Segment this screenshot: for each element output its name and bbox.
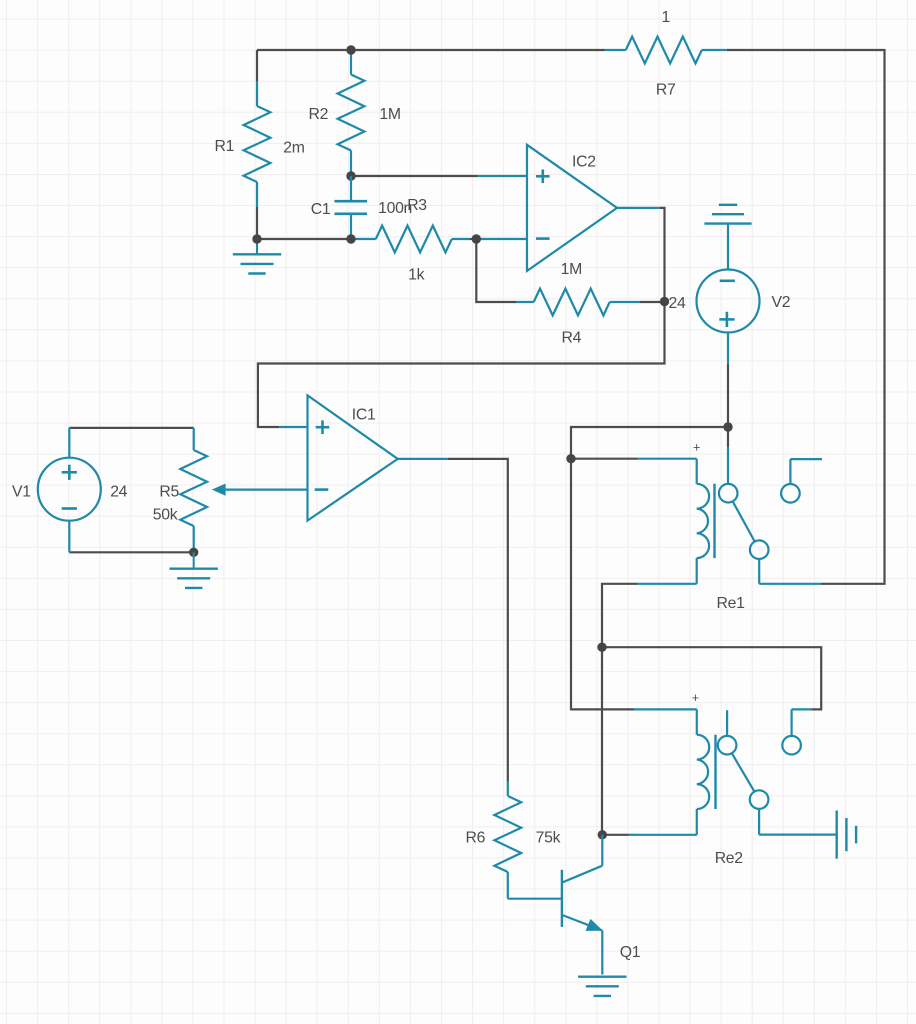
- wire R4 right to node 24: [640, 301, 665, 303]
- wire V1 top to R5 top: [69, 427, 193, 429]
- svg-text:R7: R7: [656, 82, 676, 99]
- label V1: [12, 484, 31, 501]
- wire IC2 - node down to R4 left: [476, 239, 516, 302]
- ground below R5: [170, 552, 218, 588]
- junction node V2 bottom: [723, 422, 732, 431]
- svg-text:C1: C1: [311, 201, 331, 218]
- wire IC2 output feedback to IC1 + input: [258, 208, 665, 427]
- label 24 (node): [669, 295, 686, 312]
- svg-text:75k: 75k: [536, 829, 561, 846]
- svg-text:+: +: [692, 691, 699, 705]
- relay Re1 coil: [638, 459, 715, 584]
- svg-text:R6: R6: [466, 829, 486, 846]
- wire Re1 coil bottom down to Q1 collector node: [602, 584, 638, 835]
- wire Re2 coil bottom to Q1 collector: [602, 834, 629, 836]
- label 1 (R7 value): [662, 9, 671, 26]
- op-amp IC1: [279, 395, 448, 520]
- resistor R2: [338, 54, 365, 176]
- svg-text:24: 24: [669, 295, 686, 312]
- wire V1 bottom to R5 bottom: [69, 551, 193, 553]
- svg-text:Re1: Re1: [717, 595, 746, 612]
- svg-text:R3: R3: [407, 197, 427, 214]
- junction node R1 bottom: [252, 234, 261, 243]
- label 1M (R2 value): [379, 106, 400, 123]
- relay Re1 NC contact: [781, 459, 822, 503]
- wire IC1 output down to R6: [448, 459, 508, 781]
- label 1k (R3 value): [408, 267, 424, 284]
- svg-text:Q1: Q1: [620, 944, 641, 961]
- label 2m (R1 value): [283, 140, 304, 157]
- svg-text:R5: R5: [159, 484, 179, 501]
- label R2: [309, 106, 329, 123]
- label R6: [466, 829, 486, 846]
- wire Re1 common stub gray: [727, 427, 729, 447]
- ground below Q1: [578, 977, 626, 996]
- label IC1: [352, 407, 376, 424]
- junction node Re1 row: [597, 643, 606, 652]
- relay Re2 coil: [634, 709, 716, 834]
- label Q1: [620, 944, 641, 961]
- junction node Re1 coil top: [566, 454, 575, 463]
- relay Re1 NO contact: [750, 540, 821, 583]
- capacitor C1: [335, 176, 368, 239]
- svg-text:50k: 50k: [153, 507, 178, 524]
- label C1: [311, 201, 331, 218]
- op-amp IC2: [527, 145, 660, 271]
- label R7: [656, 82, 676, 99]
- svg-text:1: 1: [662, 9, 671, 26]
- svg-text:V2: V2: [772, 294, 791, 311]
- label 50k (R5 value): [153, 507, 178, 524]
- ground right of Re2: [837, 811, 856, 859]
- svg-text:24: 24: [110, 484, 127, 501]
- label V2: [772, 294, 791, 311]
- svg-text:R1: R1: [215, 138, 235, 155]
- voltage source V2: [697, 270, 760, 364]
- wire R1 top lead stub: [256, 50, 258, 81]
- relay Re2 switch common: [718, 710, 737, 754]
- label Re1: [717, 595, 746, 612]
- label + (Re2 coil polarity): [692, 691, 699, 705]
- resistor R1: [244, 81, 271, 207]
- wire branch to Re1 coil top: [571, 458, 638, 460]
- svg-text:1k: 1k: [408, 267, 424, 284]
- wire Re1 row to Re2 NC contact: [602, 647, 821, 709]
- svg-text:V1: V1: [12, 484, 31, 501]
- svg-text:R2: R2: [309, 106, 329, 123]
- svg-text:Re2: Re2: [715, 850, 743, 867]
- svg-text:1M: 1M: [561, 261, 582, 278]
- wire R2/C1 node to IC2 + input: [351, 175, 478, 177]
- label R4: [562, 330, 582, 347]
- label R5: [159, 484, 179, 501]
- wire node to IC2 - input: [476, 238, 527, 240]
- label 100n (C1 value): [378, 200, 412, 217]
- wire ground net R1 to C1 bottom: [257, 238, 351, 240]
- relay Re2 NC contact: [782, 709, 812, 754]
- junction node Re2 bottom: [598, 830, 607, 839]
- potentiometer R5: [180, 428, 207, 552]
- relay Re1 switch common: [719, 447, 738, 503]
- wire Re2 bottom teal: [629, 834, 637, 836]
- label 1M (R4 value): [561, 261, 582, 278]
- svg-text:IC1: IC1: [352, 407, 376, 424]
- junction node R2/C1: [346, 171, 355, 180]
- relay Re1 armature: [733, 501, 755, 541]
- svg-text:R4: R4: [562, 330, 582, 347]
- junction node IC2 minus: [472, 234, 481, 243]
- voltage source V1: [38, 428, 101, 552]
- svg-text:1M: 1M: [379, 106, 400, 123]
- resistor R6: [494, 781, 561, 899]
- junction node 24: [660, 297, 669, 306]
- wire top net R1/R2 to R7: [257, 49, 605, 51]
- wire R7 right to relay Re1 NO contact: [727, 50, 885, 584]
- resistor R7: [605, 37, 727, 64]
- wire R1 bottom stub: [256, 207, 258, 239]
- svg-text:+: +: [693, 441, 700, 455]
- relay Re2 NO contact: [750, 790, 837, 834]
- label 24 (V1 value): [110, 484, 127, 501]
- label 75k (R6 value): [536, 829, 561, 846]
- wire R3 right gray nub: [469, 238, 476, 240]
- R5 wiper arrow to IC1 - input: [212, 484, 308, 496]
- resistor R4: [516, 289, 640, 316]
- svg-text:IC2: IC2: [572, 154, 596, 171]
- label + (Re1 coil polarity): [693, 441, 700, 455]
- label R1: [215, 138, 235, 155]
- svg-text:2m: 2m: [283, 140, 304, 157]
- junction node R5 bottom: [189, 548, 198, 557]
- transistor Q1: [562, 835, 603, 975]
- junction node C1 bottom: [346, 234, 355, 243]
- label Re2: [715, 850, 743, 867]
- relay Re2 armature: [732, 753, 755, 791]
- junction node R2 top: [346, 45, 355, 54]
- label IC2: [572, 154, 596, 171]
- ground above V2 (inverted): [704, 205, 751, 270]
- ground below R1: [233, 239, 281, 274]
- resistor R3: [351, 226, 469, 253]
- wire V2 bottom to Re1 common and left branch: [571, 364, 728, 710]
- wire teal into IC2 + input: [478, 175, 527, 177]
- label R3: [407, 197, 427, 214]
